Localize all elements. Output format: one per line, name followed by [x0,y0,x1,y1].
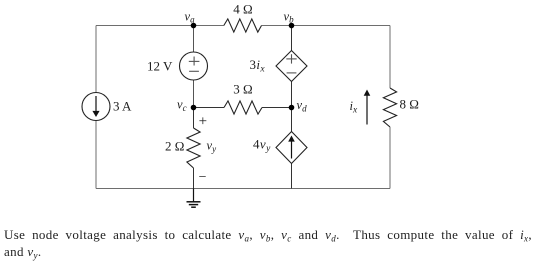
resistor R2 3ohm horizontal middle [224,101,262,114]
svg-text:vb: vb [284,10,295,25]
wire vc to 2ohm top [193,108,195,129]
svg-text:vc: vc [177,98,187,114]
svg-text:+: + [199,113,207,129]
svg-text:3 Ω: 3 Ω [233,82,252,97]
wire va to 12V top [193,26,195,53]
resistor R3 2ohm vertical [187,128,200,168]
wire right vertical upper [389,26,391,89]
node vb [289,23,295,29]
current source I1 3A [82,93,110,121]
node vd [289,105,295,111]
resistor R1 4ohm horizontal top [224,19,262,32]
wire vc to 3ohm left [194,107,225,109]
resistor R4 8ohm vertical right [383,88,396,127]
node va [191,23,197,29]
dependent source E1 3ix diamond [276,51,307,82]
svg-text:2 Ω: 2 Ω [165,139,184,154]
svg-text:4vy: 4vy [253,137,271,155]
svg-text:ix: ix [350,99,358,116]
wire 3ohm right to vd [262,107,292,109]
svg-text:12 V: 12 V [147,59,173,74]
wire vb to 3ix diamond top [291,26,293,51]
voltage source V1 12V [180,52,208,80]
ground [193,189,195,202]
wire right vertical lower [389,127,391,189]
svg-text:va: va [185,10,196,25]
wire left vertical upper [95,26,97,93]
ix arrow [366,96,368,125]
svg-text:vy: vy [207,139,217,155]
caption text [4,226,532,261]
svg-text:4 Ω: 4 Ω [233,2,252,17]
wire 4vy diamond bottom to bottom rail [291,164,293,189]
wire 2ohm bottom to ground rail [193,168,195,189]
svg-text:−: − [199,170,207,185]
node vc [191,105,197,111]
wire left vertical lower [95,121,97,189]
svg-text:3ix: 3ix [250,57,266,75]
svg-text:3 A: 3 A [113,99,132,114]
wire top-right horizontal [262,25,391,27]
wire 3ix diamond bottom to vd [291,82,293,108]
wire 12V bottom to vc [193,80,195,108]
svg-text:8 Ω: 8 Ω [400,97,419,112]
wire bottom horizontal [96,188,390,190]
wire top-left horizontal [96,25,224,27]
dependent source G1 4vy diamond [276,132,307,164]
svg-text:vd: vd [297,98,308,114]
wire vd to 4vy diamond top [291,108,293,132]
